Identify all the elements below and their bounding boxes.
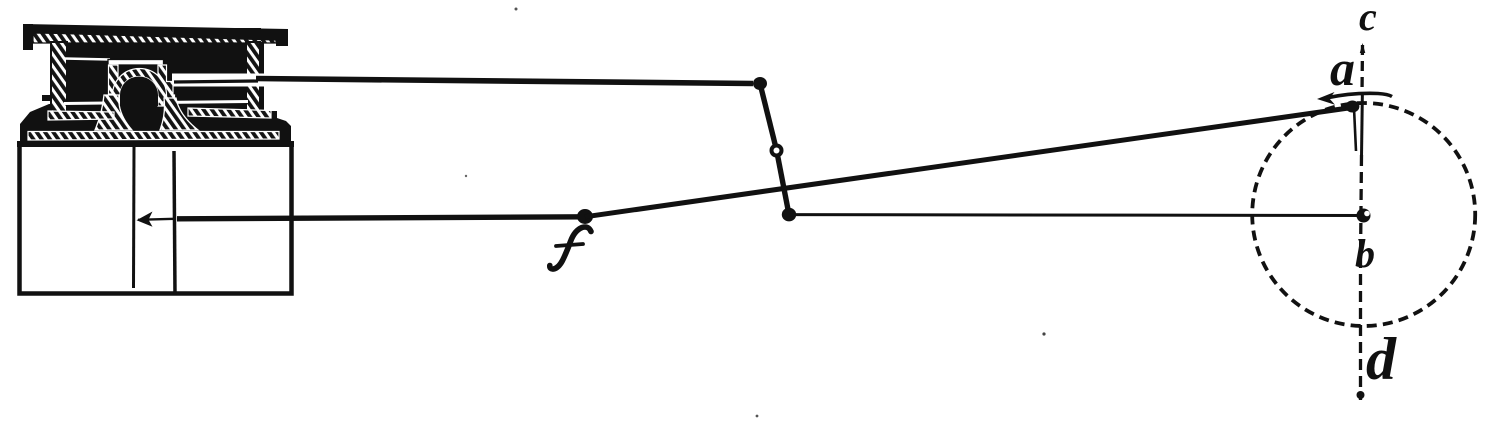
lever bottom pin <box>782 208 796 222</box>
arrowhead <box>137 212 153 227</box>
crank centre b hub <box>1357 209 1371 223</box>
piston line 1 <box>132 146 136 288</box>
white highlight line above valve <box>64 59 110 60</box>
ink speck 4 <box>756 415 759 418</box>
valve rod (chest to lever) <box>256 79 753 84</box>
svg-text:a: a <box>1330 40 1355 96</box>
steam chest cover hatched underside <box>33 33 276 43</box>
vertical axis dashed line <box>1360 45 1364 94</box>
cylinder block top edge <box>17 141 294 147</box>
valve seat strip right <box>188 108 271 118</box>
axis solid segment through pin <box>1360 92 1364 157</box>
label f <box>550 227 591 269</box>
valve arch black cavity <box>120 77 158 106</box>
piston line 2 <box>174 151 175 295</box>
port wall left (hatched S) <box>95 95 132 130</box>
cover left flange cap <box>23 24 33 50</box>
steam chest cover top bar <box>23 24 288 41</box>
piston rod heavy line to f <box>177 217 585 219</box>
svg-text:c: c <box>1359 0 1377 39</box>
steam chest cavity (black interior) <box>50 28 261 112</box>
slide valve right leg (stepped) <box>158 65 175 106</box>
valve seat white line <box>64 102 248 104</box>
slide valve top plate <box>108 60 164 66</box>
steam chest left wall <box>51 42 67 112</box>
left wall small flange tick <box>42 95 52 101</box>
ink speck 2 <box>1042 332 1045 335</box>
right wall outer black edge <box>260 42 265 111</box>
valve rod white channel inside chest <box>172 74 264 87</box>
ink speck 1 <box>515 8 518 11</box>
axis bottom blob <box>1357 391 1365 399</box>
cover right flange cap <box>276 29 288 46</box>
ink speck 3 <box>465 175 467 177</box>
lever lower arm <box>777 150 790 215</box>
lever fulcrum (open circle) <box>772 146 782 156</box>
crank pin a dot <box>1345 101 1359 113</box>
svg-text:d: d <box>1366 326 1397 392</box>
cylinder block body <box>20 144 292 294</box>
link rod to crank centre b <box>789 213 1366 217</box>
valve seat strip left <box>48 111 114 120</box>
steam chest right wall <box>246 42 260 111</box>
valve arch ring (hatched band) <box>113 69 167 105</box>
seat and passage block (black) <box>20 104 291 142</box>
rotation arrow over a <box>1326 93 1392 98</box>
cylinder flange hatched strip <box>28 132 279 141</box>
slide valve left leg <box>109 65 119 94</box>
lever upper arm <box>760 84 777 151</box>
lever top pin <box>753 77 767 90</box>
svg-text:b: b <box>1355 231 1375 276</box>
eccentric rod f to a <box>585 108 1352 217</box>
valve rod thin segment inside chest <box>174 81 258 82</box>
arrow shaft thin <box>138 219 174 220</box>
node f dot <box>577 209 593 224</box>
crank pin tail line <box>1354 108 1356 151</box>
crank circle (dashed) <box>1252 103 1475 326</box>
port wall right (hatched S) <box>160 98 198 130</box>
